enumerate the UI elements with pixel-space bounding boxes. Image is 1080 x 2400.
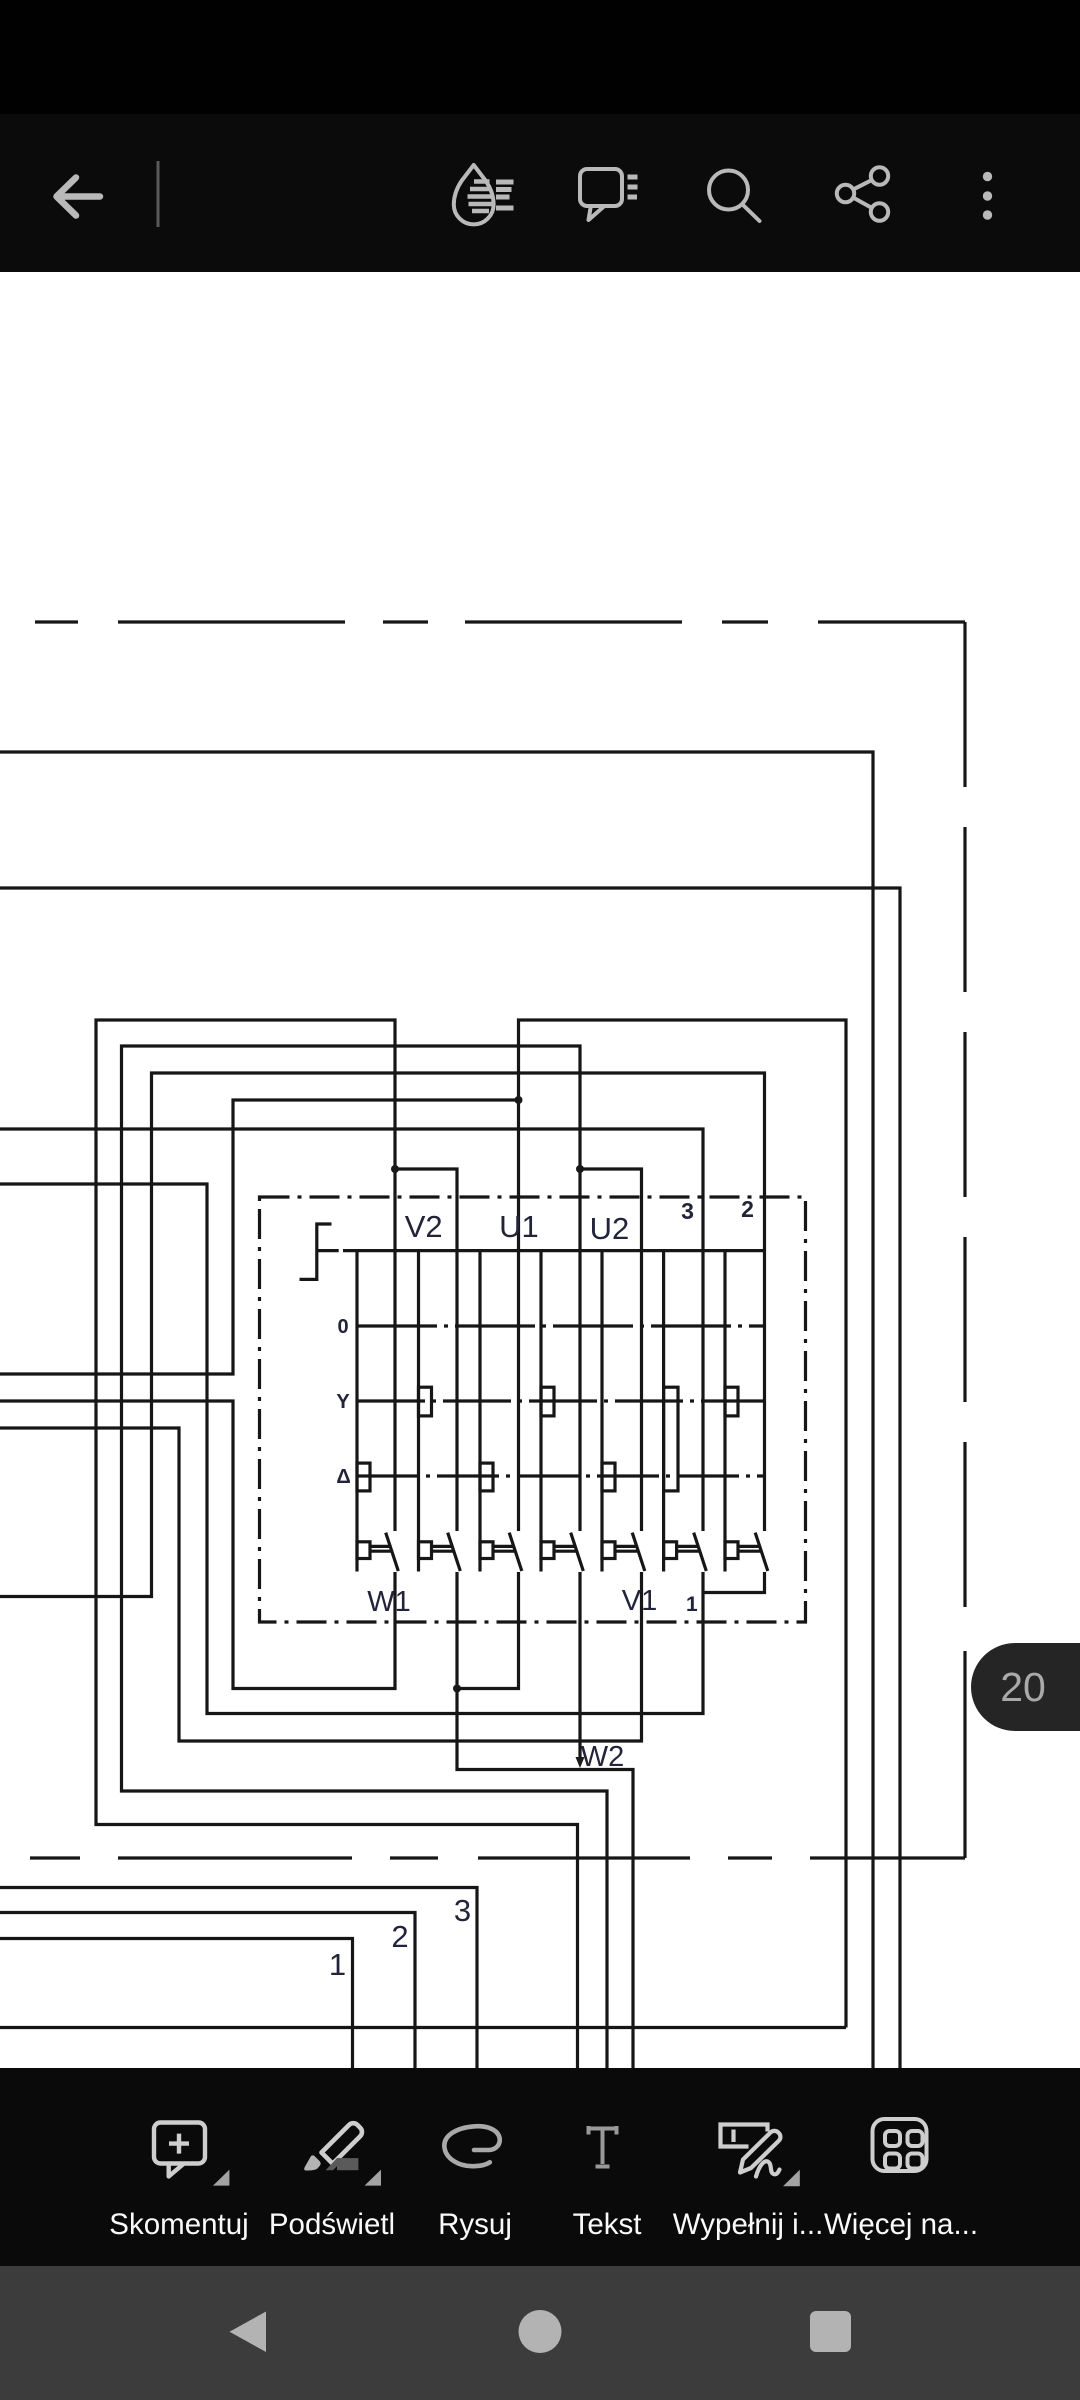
wire dashed enclosure bottom border — [30, 1856, 965, 1859]
status bar — [0, 0, 1080, 114]
svg-text:0: 0 — [337, 1316, 348, 1338]
svg-text:W2: W2 — [581, 1741, 625, 1773]
wire supply line top to right side — [0, 752, 873, 2070]
switch column 7 — [725, 1251, 768, 1572]
nav back triangle — [230, 2312, 267, 2353]
wire dashed enclosure right border — [963, 622, 966, 1858]
wire col2 bottom to lower right — [457, 1572, 633, 2070]
wire dashed enclosure top border — [35, 620, 965, 623]
icon rysuj (draw squiggle) — [444, 2126, 499, 2166]
wire U1 column feed loop — [519, 1020, 847, 2028]
icon comment bubble — [580, 169, 638, 220]
switch column 2 — [419, 1251, 461, 1572]
icon wiecej (more grid) — [873, 2119, 927, 2171]
nav recents square — [810, 2311, 851, 2352]
wire col6 feed from left — [0, 1129, 703, 1531]
svg-text:1: 1 — [686, 1593, 698, 1616]
svg-text:Wypełnij i...: Wypełnij i... — [673, 2208, 824, 2241]
wire col3 bottom jumper to col2 — [457, 1572, 519, 1689]
switch block boundary — [260, 1197, 806, 1622]
svg-text:Więcej na...: Więcej na... — [824, 2208, 978, 2241]
svg-text:1: 1 — [329, 1947, 346, 1982]
wire phase 1 box — [0, 1939, 353, 2071]
svg-text:Δ: Δ — [336, 1466, 350, 1488]
wire supply line second to right side — [0, 888, 900, 2070]
wire col7 feed from left — [0, 1073, 765, 1597]
contact row D line — [357, 1474, 765, 1477]
switch column 3 — [480, 1251, 522, 1572]
wire col4 bottom to W2 terminal — [578, 1572, 581, 1760]
svg-text:3: 3 — [454, 1893, 471, 1928]
bottom toolbar — [0, 2068, 1080, 2266]
page number bubble — [971, 1643, 1080, 1731]
nav home circle — [519, 2310, 562, 2353]
wire W1 column feed loop — [96, 1020, 578, 2070]
wire jumper col4 to col5 — [580, 1169, 642, 1531]
wire col5 bottom return to left — [0, 1428, 642, 1741]
icon search — [709, 171, 760, 222]
icon tekst (T) — [589, 2126, 617, 2167]
svg-text:Y: Y — [336, 1391, 350, 1413]
node junction col3 tap — [515, 1096, 523, 1104]
wire col3 tap to left — [0, 1100, 519, 1374]
navigation bar — [0, 2266, 1080, 2400]
icon liquid mode droplet — [454, 165, 514, 224]
wire bottom collector — [0, 2026, 846, 2029]
wire U2 column feed loop — [122, 1046, 608, 2070]
wire jumper col1 to col2 — [395, 1169, 457, 1531]
svg-text:U1: U1 — [499, 1209, 539, 1244]
top toolbar — [0, 114, 1080, 272]
wire phase 2 box — [0, 1913, 415, 2071]
icon overflow menu — [983, 172, 992, 220]
icon podswietl (highlighter pen) — [304, 2123, 381, 2185]
switch handle — [300, 1224, 339, 1279]
svg-text:U2: U2 — [590, 1211, 630, 1246]
svg-text:3: 3 — [681, 1198, 694, 1224]
svg-text:2: 2 — [741, 1196, 754, 1222]
contact row 0 line — [357, 1324, 765, 1327]
switch column 1 — [357, 1251, 398, 1572]
wire col6 bottom return to left — [0, 1184, 703, 1714]
node W2 arrow tip — [576, 1757, 585, 1768]
svg-text:2: 2 — [391, 1919, 408, 1954]
switch column 6 — [664, 1251, 707, 1572]
toolbar labels — [109, 2208, 978, 2241]
node junction col1 jumper — [391, 1165, 399, 1173]
wire phase 3 box — [0, 1888, 477, 2071]
svg-text:V2: V2 — [405, 1209, 443, 1244]
switch column 5 — [602, 1251, 645, 1572]
svg-text:Rysuj: Rysuj — [438, 2208, 512, 2241]
contact row Y line — [357, 1399, 765, 1402]
wire col1 bottom return to left — [0, 1401, 395, 1689]
wire col7 bottom jumper to col6 — [703, 1572, 765, 1593]
svg-text:V1: V1 — [622, 1585, 657, 1617]
svg-text:Podświetl: Podświetl — [269, 2208, 395, 2241]
node junction col4 jumper — [576, 1165, 584, 1173]
node junction col2-col3 bottom — [453, 1685, 461, 1693]
svg-text:W1: W1 — [367, 1586, 411, 1618]
icon wypelnij (fill and sign) — [721, 2125, 800, 2187]
switch column 4 — [541, 1251, 583, 1572]
icon skomentuj (comment add) — [154, 2123, 229, 2186]
svg-text:Skomentuj: Skomentuj — [109, 2208, 248, 2241]
icon share — [837, 167, 888, 220]
wire grid top line — [343, 1249, 765, 1252]
separator bar — [157, 161, 160, 227]
svg-text:Tekst: Tekst — [573, 2208, 642, 2241]
icon back arrow — [57, 178, 101, 216]
